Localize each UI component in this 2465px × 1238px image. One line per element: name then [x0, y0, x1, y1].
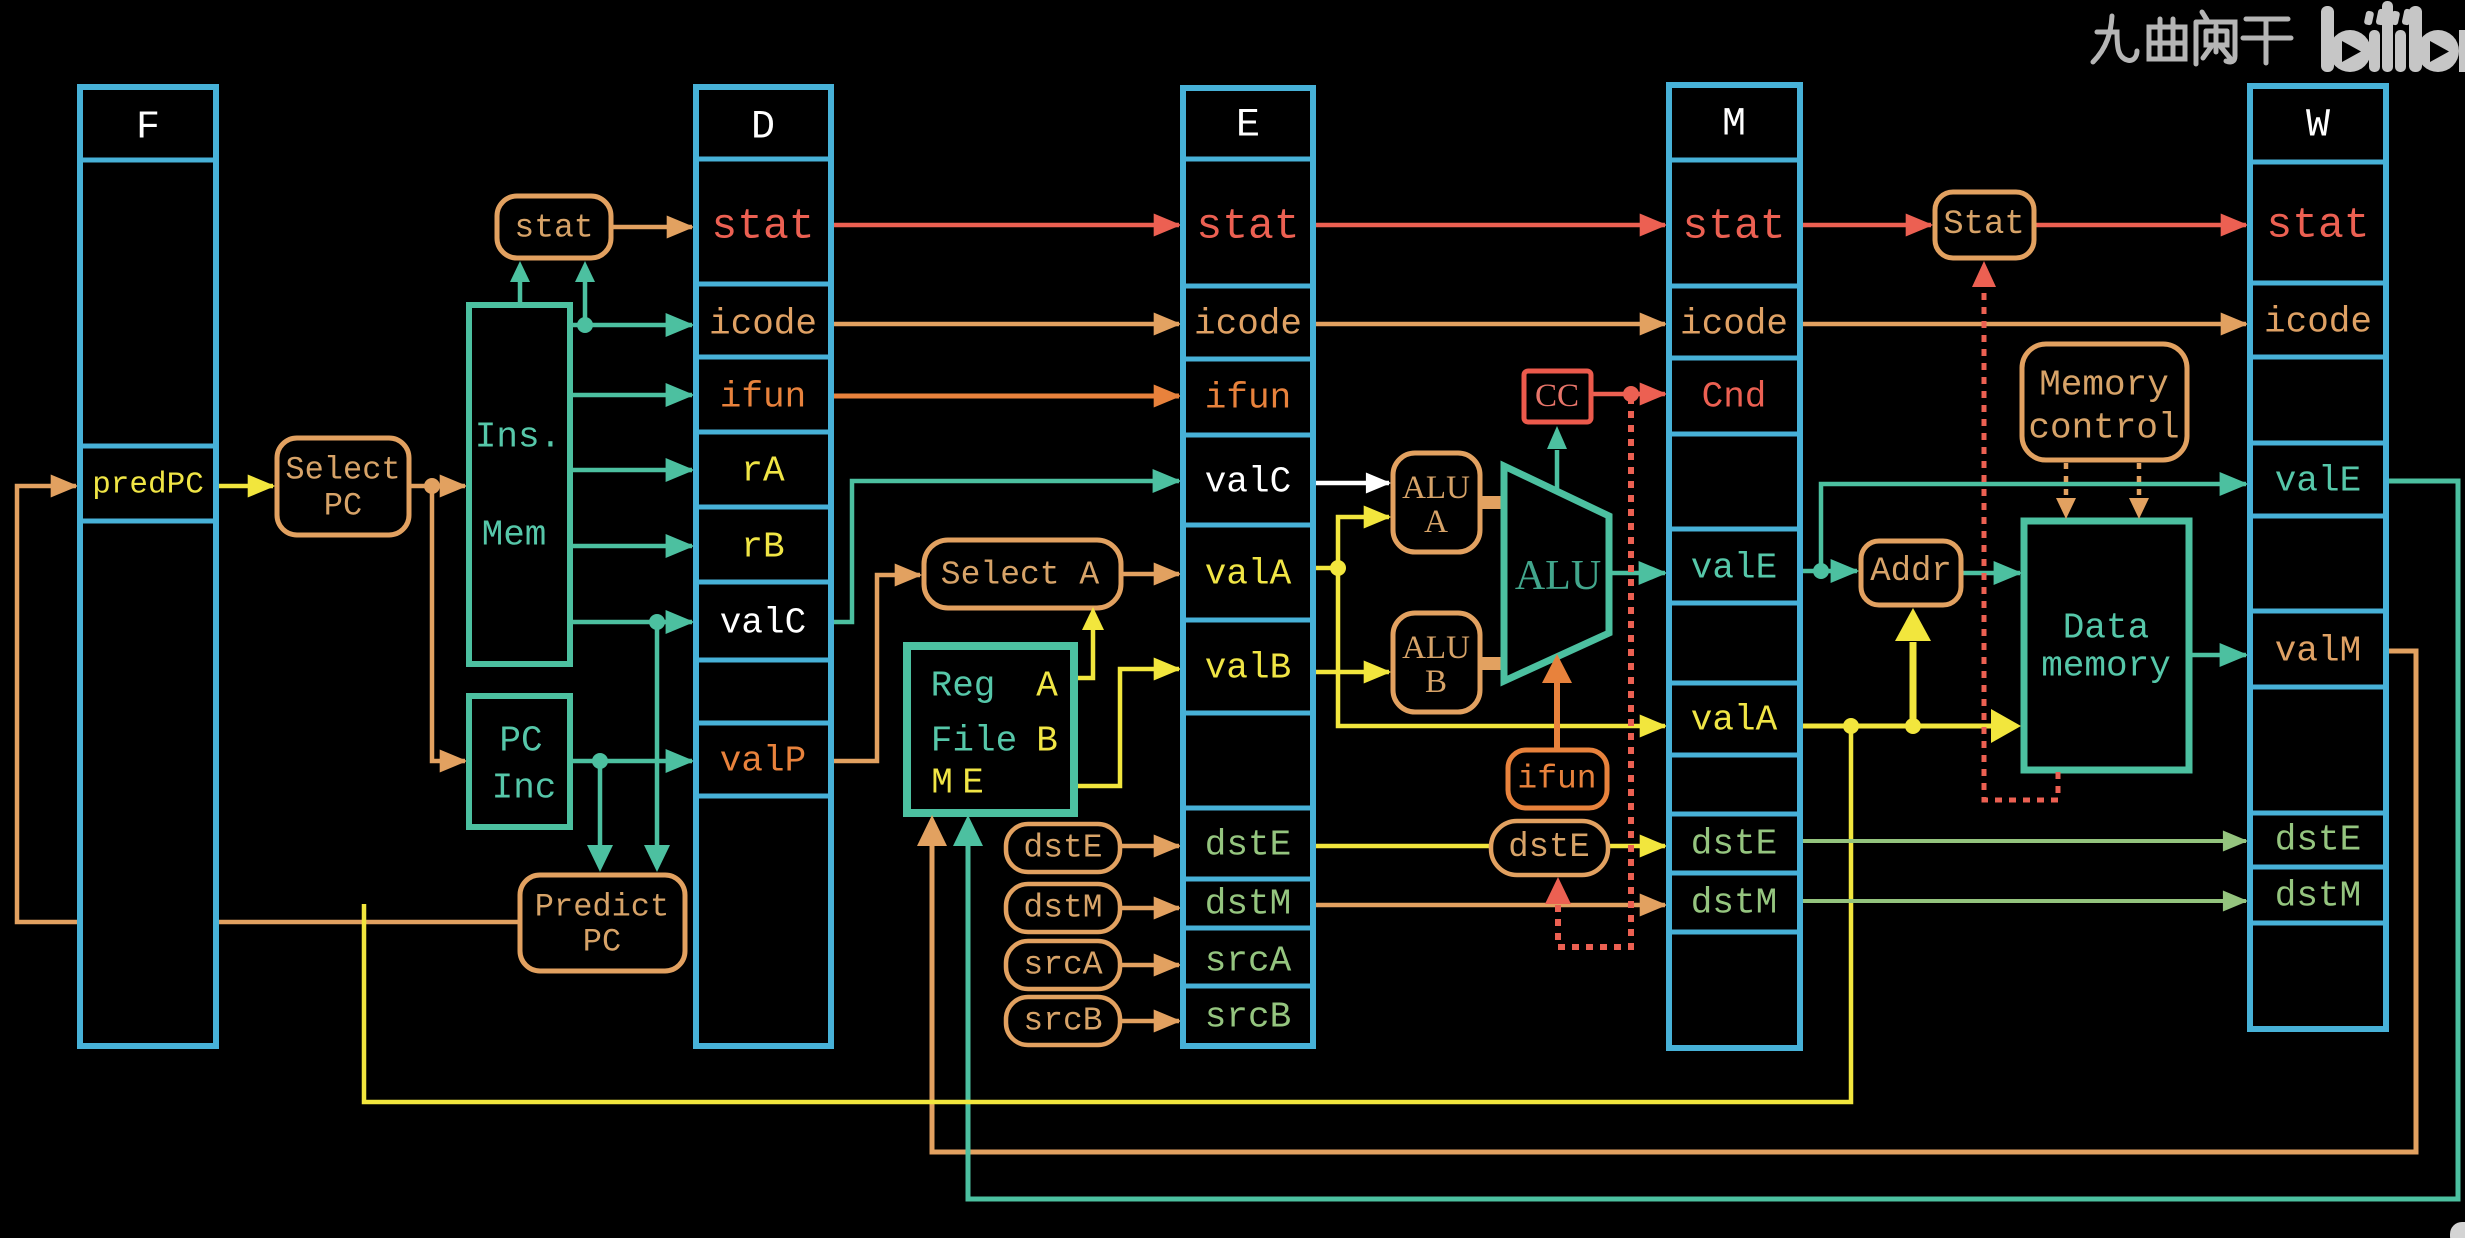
- register file: [907, 646, 1074, 813]
- srcA bubble: [1006, 941, 1120, 989]
- Select A unit: [924, 540, 1121, 608]
- wire E valC to ALU A: [1313, 481, 1389, 486]
- wire valP branch down to Predict PC: [598, 761, 603, 848]
- junction CC output: [1623, 386, 1639, 402]
- wire M dstM to W dstM: [1800, 899, 2246, 903]
- stat select bubble: [497, 196, 611, 258]
- svg-text:PC: PC: [499, 721, 542, 762]
- wire Reg File valB to E valB: [1074, 669, 1179, 786]
- svg-text:icode: icode: [709, 304, 817, 345]
- svg-text:Predict: Predict: [535, 889, 669, 926]
- ALU B connector stub: [1478, 657, 1506, 670]
- svg-text:dstE: dstE: [1691, 824, 1777, 865]
- wire M valA branch up to Addr: [1910, 642, 1917, 726]
- svg-text:valA: valA: [1205, 554, 1292, 595]
- srcB bubble: [1006, 997, 1120, 1045]
- dstM bubble: [1006, 884, 1120, 932]
- svg-text:Data: Data: [2063, 608, 2149, 649]
- instruction memory: [469, 305, 570, 664]
- arrow Reg File A into Select A: [1082, 607, 1104, 630]
- svg-text:Mem: Mem: [482, 515, 547, 556]
- svg-text:valA: valA: [1691, 700, 1778, 741]
- svg-text:M: M: [1722, 103, 1746, 148]
- svg-text:E: E: [962, 763, 984, 804]
- arrow valC branch into Predict PC: [644, 845, 670, 872]
- svg-text:PC: PC: [583, 924, 621, 961]
- svg-text:PC: PC: [324, 488, 362, 525]
- wire icode M to W: [1800, 322, 2246, 327]
- svg-text:icode: icode: [1680, 304, 1788, 345]
- pipeline register W: [2250, 86, 2386, 1029]
- wire Addr to Data memory: [1961, 571, 2020, 576]
- wire dstM bubble to E dstM: [1120, 906, 1179, 911]
- arrow icode branch to stat bubble: [575, 261, 595, 282]
- svg-text:srcA: srcA: [1023, 947, 1102, 984]
- svg-text:A: A: [1036, 666, 1058, 707]
- svg-text:valE: valE: [2275, 461, 2361, 502]
- svg-text:stat: stat: [514, 210, 593, 247]
- svg-text:D: D: [751, 106, 775, 151]
- wire dashed memory control read: [2064, 463, 2069, 498]
- pipeline register D: [696, 87, 831, 1046]
- svg-text:Stat: Stat: [1943, 206, 2025, 244]
- wire icode E to M: [1313, 322, 1665, 327]
- junction E valA branch: [1330, 560, 1346, 576]
- svg-text:dstM: dstM: [1023, 890, 1102, 927]
- wire E valA stub: [1313, 566, 1338, 571]
- wire stat E to M: [1313, 223, 1665, 228]
- svg-text:predPC: predPC: [92, 468, 204, 503]
- svg-text:dstE: dstE: [1508, 829, 1590, 867]
- svg-text:CC: CC: [1535, 378, 1579, 414]
- arrow W valM feedback into Reg File: [917, 815, 947, 846]
- wire CC to M Cnd: [1591, 392, 1665, 397]
- data memory: [2024, 521, 2189, 770]
- wire Select A to E valA: [1121, 572, 1179, 577]
- Select PC unit: [277, 438, 409, 535]
- arrow memory control write: [2129, 498, 2149, 519]
- wire Select PC to Ins Mem: [409, 484, 465, 489]
- watermark bilibili logo: [2321, 1, 2465, 72]
- arrow W valE feedback into Reg File: [953, 815, 983, 846]
- svg-text:valC: valC: [1205, 462, 1291, 503]
- pipeline register F: [80, 87, 216, 1046]
- svg-text:ALU: ALU: [1402, 470, 1470, 506]
- svg-text:srcA: srcA: [1205, 941, 1292, 982]
- svg-text:srcB: srcB: [1205, 997, 1291, 1038]
- svg-text:valB: valB: [1205, 648, 1291, 689]
- svg-text:rB: rB: [741, 527, 784, 568]
- Stat bubble: [1935, 192, 2034, 258]
- svg-text:dstE: dstE: [2275, 820, 2361, 861]
- memory control unit: [2022, 344, 2187, 460]
- svg-text:memory: memory: [2041, 646, 2171, 687]
- svg-text:File: File: [931, 721, 1017, 762]
- wire dstE bubble to E dstE: [1120, 844, 1179, 849]
- wire ifun D to E: [831, 394, 1179, 399]
- svg-text:stat: stat: [711, 202, 814, 251]
- junction M valE branch: [1813, 563, 1829, 579]
- wire PC Inc to D valP: [570, 759, 692, 764]
- arrow M valA into Addr: [1895, 608, 1931, 641]
- wire stat bubble to D stat: [610, 225, 692, 230]
- wire E valA up to ALU A: [1338, 517, 1389, 568]
- svg-text:E: E: [1236, 104, 1260, 149]
- ALU unit: [1504, 466, 1609, 681]
- arrow memory control read: [2056, 498, 2076, 519]
- svg-text:dstM: dstM: [1691, 883, 1777, 924]
- svg-text:ifun: ifun: [1517, 761, 1596, 798]
- junction valP predict branch: [592, 753, 608, 769]
- wire M valE to Addr: [1800, 569, 1857, 574]
- wire Reg File valA to Select A: [1074, 618, 1093, 678]
- wire F predPC to Select PC: [216, 484, 273, 489]
- arrow M valA into Data memory: [1991, 709, 2021, 743]
- svg-text:Select: Select: [285, 452, 400, 489]
- PC increment unit: [469, 696, 570, 827]
- wire dashed memory control write: [2137, 463, 2142, 498]
- watermark text: [2093, 12, 2291, 64]
- wire M valA feedback down and left: [364, 726, 1851, 1102]
- wire E valA bypass to M valA: [1338, 568, 1665, 726]
- svg-text:A: A: [1424, 504, 1448, 540]
- wire stat D to E: [831, 223, 1179, 228]
- svg-text:ALU: ALU: [1515, 553, 1601, 599]
- wire M dstE to W dstE: [1800, 839, 2246, 843]
- svg-text:ifun: ifun: [1205, 378, 1291, 419]
- svg-text:M: M: [931, 763, 953, 804]
- wire Predict PC feedback to F predPC: [17, 486, 522, 922]
- svg-text:stat: stat: [1682, 202, 1785, 251]
- dstE bubble: [1006, 824, 1120, 872]
- svg-text:dstM: dstM: [1205, 884, 1291, 925]
- svg-text:icode: icode: [1194, 304, 1302, 345]
- wire Ins Mem to D valC: [570, 620, 692, 625]
- arrow ifun into ALU: [1554, 680, 1560, 750]
- watermark bilibili play triangles: [2342, 41, 2361, 62]
- ALU A input unit: [1393, 453, 1480, 552]
- svg-text:Addr: Addr: [1870, 553, 1952, 591]
- svg-text:valM: valM: [2275, 631, 2361, 672]
- wire dstM E to M: [1313, 903, 1665, 908]
- svg-text:stat: stat: [1196, 202, 1299, 251]
- svg-text:rA: rA: [741, 451, 785, 492]
- ALU A connector stub: [1478, 496, 1506, 509]
- svg-text:Ins.: Ins.: [475, 417, 561, 458]
- wire Ins Mem to D rA: [570, 468, 692, 473]
- svg-text:ifun: ifun: [720, 377, 806, 418]
- svg-text:valC: valC: [720, 603, 806, 644]
- svg-text:ALU: ALU: [1402, 630, 1470, 666]
- svg-text:dstM: dstM: [2275, 876, 2361, 917]
- wire M valA to Data memory: [1800, 724, 1994, 729]
- svg-text:srcB: srcB: [1023, 1003, 1102, 1040]
- Predict PC unit: [520, 875, 685, 971]
- wire Data memory to W valM: [2189, 653, 2246, 658]
- svg-text:Cnd: Cnd: [1702, 377, 1767, 418]
- arrow valP branch into Predict PC: [587, 845, 613, 872]
- arrow dashed into dstE forward bubble: [1545, 877, 1571, 904]
- wire E valB to ALU B: [1313, 670, 1389, 675]
- wire stat M to Stat bubble: [1800, 223, 1931, 228]
- svg-text:F: F: [136, 106, 160, 151]
- wire W valM feedback to Reg File M: [932, 651, 2416, 1152]
- svg-text:control: control: [2028, 408, 2179, 449]
- svg-text:icode: icode: [2264, 302, 2372, 343]
- wire valC branch down to Predict PC: [655, 622, 660, 848]
- wire dashed data memory error to Stat: [1984, 288, 2058, 800]
- pipeline register E: [1183, 88, 1313, 1046]
- wire icode D to E: [831, 322, 1179, 327]
- pipeline register M: [1669, 85, 1800, 1048]
- wire Select PC branch to PC Inc: [432, 486, 465, 761]
- wire Ins Mem to D ifun: [570, 393, 692, 398]
- wire M valE branch to W valE: [1821, 484, 2246, 571]
- svg-text:Reg: Reg: [931, 666, 996, 707]
- watermark corner sticker: [2450, 1222, 2465, 1238]
- ifun bubble: [1508, 750, 1607, 808]
- svg-text:valP: valP: [720, 741, 806, 782]
- junction valC predict branch: [649, 614, 665, 630]
- wire Ins Mem to D icode: [570, 323, 692, 328]
- wire srcB bubble to E srcB: [1120, 1019, 1179, 1024]
- svg-text:W: W: [2306, 104, 2330, 149]
- svg-text:Select A: Select A: [941, 557, 1100, 594]
- wire W valE feedback to Reg File E: [968, 481, 2458, 1199]
- svg-text:B: B: [1036, 721, 1058, 762]
- wire srcA bubble to E srcA: [1120, 963, 1179, 968]
- wire Stat bubble to W stat: [2034, 223, 2246, 228]
- junction M valA Addr branch: [1905, 718, 1921, 734]
- wire Ins Mem up to stat bubble: [518, 280, 523, 305]
- arrow ALU into CC: [1547, 426, 1567, 449]
- junction M valA feedback branch: [1843, 718, 1859, 734]
- Addr unit: [1861, 541, 1961, 605]
- wire ALU to M valE: [1611, 571, 1665, 576]
- junction icode stat branch: [577, 317, 593, 333]
- condition code register CC: [1524, 371, 1591, 422]
- svg-text:Memory: Memory: [2039, 365, 2169, 406]
- svg-text:stat: stat: [2266, 201, 2369, 250]
- wire dashed Cnd to dstE forward: [1558, 397, 1631, 947]
- arrow Ins Mem to stat bubble: [510, 261, 530, 282]
- wire D valC to E valC: [831, 481, 1179, 622]
- wire Ins Mem to D rB: [570, 544, 692, 549]
- wire icode branch up to stat bubble: [583, 280, 588, 325]
- arrow dashed into Stat bubble: [1972, 261, 1996, 287]
- wire ALU to CC: [1555, 450, 1560, 492]
- svg-text:Inc: Inc: [492, 768, 557, 809]
- dstE forward bubble: [1491, 821, 1608, 875]
- svg-text:B: B: [1425, 664, 1447, 700]
- svg-text:valE: valE: [1691, 548, 1777, 589]
- ALU B input unit: [1393, 613, 1480, 712]
- wire E dstE to M dstE: [1313, 844, 1665, 849]
- wire D valP to Select A: [831, 575, 920, 761]
- svg-text:dstE: dstE: [1205, 825, 1291, 866]
- junction Select PC output: [424, 478, 440, 494]
- svg-text:dstE: dstE: [1023, 830, 1102, 867]
